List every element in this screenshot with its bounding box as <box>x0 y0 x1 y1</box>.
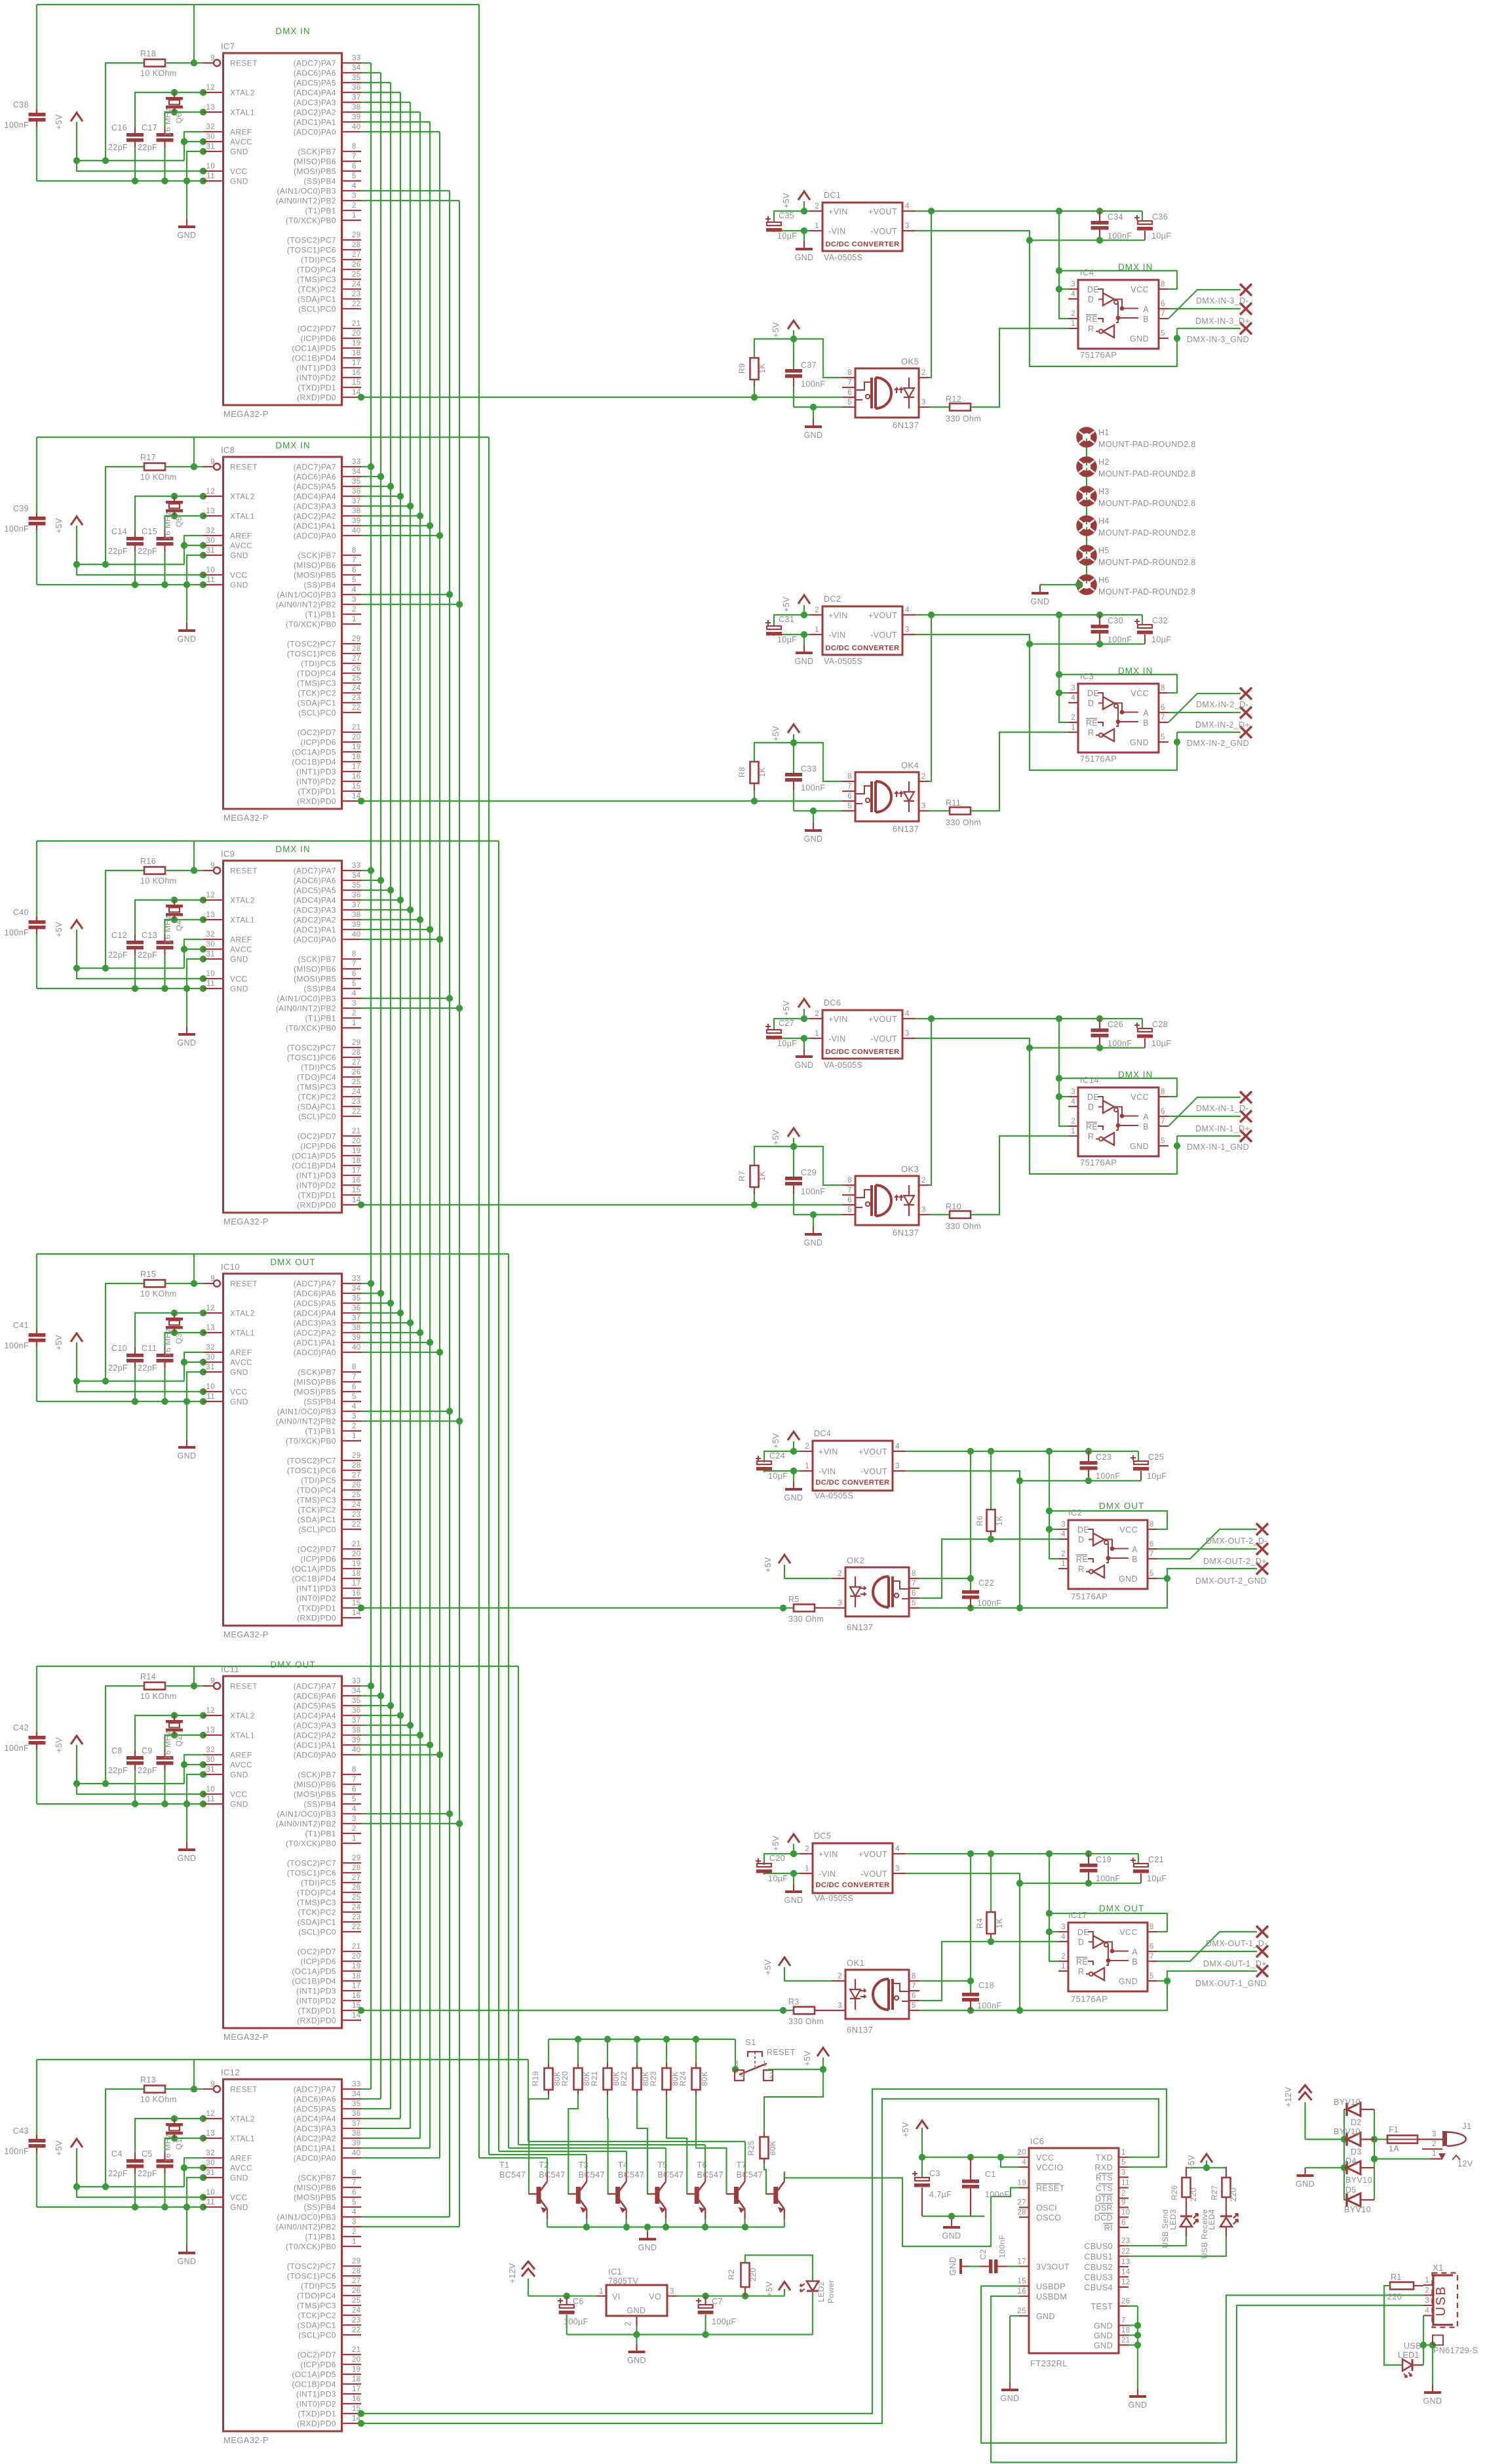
svg-text:(OC1B)PD4: (OC1B)PD4 <box>292 1574 336 1584</box>
svg-text:D: D <box>1088 295 1094 304</box>
svg-text:(SCK)PB7: (SCK)PB7 <box>298 1770 336 1780</box>
svg-text:R19: R19 <box>531 2071 540 2086</box>
svg-text:CBUS3: CBUS3 <box>1084 2273 1113 2282</box>
svg-text:2: 2 <box>815 203 819 210</box>
svg-text:BYV10: BYV10 <box>1334 2098 1361 2107</box>
svg-text:IC3: IC3 <box>1080 671 1094 681</box>
svg-text:PN61729-S: PN61729-S <box>1433 2346 1478 2355</box>
svg-text:11: 11 <box>206 1795 215 1803</box>
svg-text:10: 10 <box>1121 2209 1130 2217</box>
svg-text:19: 19 <box>352 2366 361 2374</box>
svg-text:7: 7 <box>1149 1953 1154 1961</box>
svg-text:4: 4 <box>1022 2159 1026 2166</box>
svg-text:GND: GND <box>1130 738 1149 747</box>
svg-text:15: 15 <box>352 783 361 791</box>
svg-text:DMX-IN-2_D+: DMX-IN-2_D+ <box>1195 720 1250 730</box>
svg-text:10 KOhm: 10 KOhm <box>140 473 177 482</box>
svg-text:(ADC2)PA2: (ADC2)PA2 <box>294 512 336 521</box>
svg-text:(OC2)PD7: (OC2)PD7 <box>298 2351 336 2360</box>
svg-text:1: 1 <box>599 2288 604 2296</box>
svg-text:D3: D3 <box>1351 2147 1362 2157</box>
svg-text:7: 7 <box>352 557 357 564</box>
svg-text:(ADC3)PA3: (ADC3)PA3 <box>294 2124 336 2134</box>
svg-text:33: 33 <box>352 1677 361 1685</box>
svg-text:(TOSC1)PC6: (TOSC1)PC6 <box>287 1053 336 1063</box>
svg-text:8: 8 <box>352 950 357 958</box>
svg-text:(SCL)PC0: (SCL)PC0 <box>298 1112 336 1122</box>
svg-text:16: 16 <box>1017 2288 1026 2296</box>
svg-text:(TOSC1)PC6: (TOSC1)PC6 <box>287 2272 336 2281</box>
svg-text:16: 16 <box>352 773 361 781</box>
svg-text:13: 13 <box>206 911 215 919</box>
svg-text:C2: C2 <box>978 2249 988 2259</box>
svg-text:XTAL1: XTAL1 <box>230 512 255 521</box>
svg-text:1: 1 <box>815 626 819 634</box>
svg-text:H5: H5 <box>1098 546 1110 555</box>
svg-text:16 MHz: 16 MHz <box>163 915 172 944</box>
svg-text:13: 13 <box>1121 2258 1130 2266</box>
svg-text:R14: R14 <box>140 1672 156 1681</box>
svg-text:(INT0)PD2: (INT0)PD2 <box>296 777 336 787</box>
svg-text:13: 13 <box>206 1727 215 1734</box>
svg-text:100nF: 100nF <box>5 1744 29 1753</box>
svg-text:4: 4 <box>895 1845 900 1853</box>
svg-text:32: 32 <box>206 2149 215 2157</box>
svg-text:C22: C22 <box>978 1578 994 1588</box>
svg-text:(OC2)PD7: (OC2)PD7 <box>298 324 336 334</box>
svg-text:10µF: 10µF <box>768 1874 788 1883</box>
svg-text:37: 37 <box>352 901 361 909</box>
svg-text:LED1: LED1 <box>1398 2351 1419 2360</box>
svg-text:13: 13 <box>206 104 215 111</box>
svg-text:8: 8 <box>847 773 852 781</box>
svg-text:OK1: OK1 <box>847 1958 864 1968</box>
svg-text:18: 18 <box>352 1570 361 1578</box>
svg-text:AREF: AREF <box>230 935 252 945</box>
svg-text:2: 2 <box>1071 310 1075 318</box>
svg-text:30: 30 <box>206 1354 215 1361</box>
svg-text:GND: GND <box>1129 2400 1148 2410</box>
svg-text:(TCK)PC2: (TCK)PC2 <box>298 1506 336 1515</box>
svg-text:(ADC5)PA5: (ADC5)PA5 <box>294 79 336 88</box>
svg-text:21: 21 <box>352 1540 361 1548</box>
svg-text:10: 10 <box>206 970 215 978</box>
svg-text:(ADC1)PA1: (ADC1)PA1 <box>294 522 336 531</box>
svg-text:100µF: 100µF <box>564 2317 589 2326</box>
svg-text:(TOSC2)PC7: (TOSC2)PC7 <box>287 1044 336 1053</box>
svg-text:(AIN0/INT2)PB2: (AIN0/INT2)PB2 <box>276 1417 336 1426</box>
svg-text:BC547: BC547 <box>499 2170 526 2180</box>
svg-text:16: 16 <box>352 2395 361 2403</box>
svg-text:17: 17 <box>352 2385 361 2393</box>
svg-text:35: 35 <box>352 478 361 486</box>
svg-text:C27: C27 <box>779 1019 794 1028</box>
svg-text:33: 33 <box>352 1275 361 1283</box>
svg-text:100nF: 100nF <box>1108 635 1132 644</box>
svg-text:(AIN1/OC0)PB3: (AIN1/OC0)PB3 <box>277 591 336 600</box>
svg-text:MEGA32-P: MEGA32-P <box>223 2435 269 2445</box>
svg-text:+5V: +5V <box>782 193 791 208</box>
svg-text:4: 4 <box>1061 1531 1066 1538</box>
svg-text:+VIN: +VIN <box>828 207 848 216</box>
svg-text:(TXD)PD1: (TXD)PD1 <box>298 787 336 796</box>
svg-text:C42: C42 <box>13 1723 29 1732</box>
svg-text:RXD: RXD <box>1094 2163 1113 2172</box>
svg-text:RESET: RESET <box>1036 2184 1065 2193</box>
svg-text:3: 3 <box>921 1206 926 1214</box>
svg-text:GND: GND <box>1001 2394 1020 2403</box>
svg-text:22: 22 <box>352 300 361 308</box>
svg-text:C18: C18 <box>978 1981 994 1990</box>
svg-text:29: 29 <box>352 2258 361 2265</box>
svg-text:Q6: Q6 <box>174 113 183 124</box>
svg-text:(TDI)PC5: (TDI)PC5 <box>301 256 336 265</box>
svg-text:(ADC5)PA5: (ADC5)PA5 <box>294 482 336 492</box>
svg-text:5: 5 <box>847 1206 852 1214</box>
svg-text:+5V: +5V <box>771 322 781 338</box>
svg-text:100nF: 100nF <box>977 2001 1001 2010</box>
svg-text:GND: GND <box>230 1368 248 1377</box>
svg-text:2: 2 <box>1425 2287 1429 2295</box>
svg-text:OK3: OK3 <box>901 1164 919 1174</box>
svg-text:6: 6 <box>352 1383 357 1391</box>
svg-text:(ICP)PD6: (ICP)PD6 <box>300 1555 336 1564</box>
svg-text:GND: GND <box>178 1854 197 1863</box>
svg-text:R: R <box>1088 728 1094 737</box>
svg-text:BC547: BC547 <box>618 2170 644 2180</box>
svg-text:3: 3 <box>838 1599 842 1607</box>
svg-text:XTAL2: XTAL2 <box>230 2115 255 2124</box>
svg-text:330 Ohm: 330 Ohm <box>946 818 981 827</box>
svg-text:+5V: +5V <box>765 2281 774 2297</box>
svg-text:H1: H1 <box>1098 428 1110 437</box>
svg-text:(MISO)PB6: (MISO)PB6 <box>294 2183 336 2193</box>
svg-text:+12V: +12V <box>1284 2086 1293 2107</box>
svg-text:IC10: IC10 <box>221 1262 240 1272</box>
svg-text:(ADC4)PA4: (ADC4)PA4 <box>294 896 336 905</box>
svg-text:(ADC7)PA7: (ADC7)PA7 <box>294 463 336 472</box>
svg-text:GND: GND <box>804 834 823 844</box>
svg-text:3: 3 <box>895 1865 900 1873</box>
svg-text:30: 30 <box>206 537 215 545</box>
svg-text:2: 2 <box>352 202 357 210</box>
svg-text:22pF: 22pF <box>108 2169 128 2178</box>
svg-text:10: 10 <box>206 1383 215 1391</box>
svg-text:(T1)PB1: (T1)PB1 <box>305 206 336 216</box>
svg-text:12V: 12V <box>1458 2159 1473 2168</box>
svg-text:(SDA)PC1: (SDA)PC1 <box>298 295 336 304</box>
svg-text:2: 2 <box>921 1177 926 1184</box>
svg-text:(SS)PB4: (SS)PB4 <box>304 177 336 186</box>
svg-text:16 MHz: 16 MHz <box>163 511 172 540</box>
svg-text:100nF: 100nF <box>801 380 825 389</box>
svg-text:(TOSC2)PC7: (TOSC2)PC7 <box>287 1859 336 1868</box>
svg-text:(ADC7)PA7: (ADC7)PA7 <box>294 1682 336 1691</box>
svg-text:D5: D5 <box>1345 2185 1357 2195</box>
svg-text:(T1)PB1: (T1)PB1 <box>305 610 336 619</box>
svg-text:12: 12 <box>206 2110 215 2118</box>
svg-text:24: 24 <box>352 1501 361 1509</box>
svg-text:(AIN0/INT2)PB2: (AIN0/INT2)PB2 <box>276 1820 336 1829</box>
svg-text:75176AP: 75176AP <box>1080 1158 1117 1167</box>
svg-text:VI: VI <box>612 2292 621 2301</box>
svg-text:34: 34 <box>352 1285 361 1293</box>
svg-text:USBDM: USBDM <box>1036 2292 1067 2301</box>
svg-text:31: 31 <box>206 547 215 555</box>
svg-text:23: 23 <box>352 694 361 702</box>
svg-text:+5V: +5V <box>54 518 64 534</box>
svg-text:23: 23 <box>352 1098 361 1106</box>
svg-text:C5: C5 <box>142 2149 153 2159</box>
svg-text:5: 5 <box>352 980 357 988</box>
svg-text:2: 2 <box>838 1972 842 1980</box>
svg-text:DMX OUT: DMX OUT <box>1099 1501 1144 1511</box>
svg-text:8: 8 <box>1161 1088 1165 1096</box>
svg-text:A: A <box>1143 1112 1149 1122</box>
svg-text:+5V: +5V <box>771 1433 781 1449</box>
svg-text:13: 13 <box>206 507 215 515</box>
svg-text:CBUS0: CBUS0 <box>1084 2242 1113 2251</box>
svg-text:C37: C37 <box>801 361 817 370</box>
svg-text:C3: C3 <box>929 2169 940 2178</box>
svg-text:RE: RE <box>1086 718 1098 728</box>
svg-text:(INT0)PD2: (INT0)PD2 <box>296 1594 336 1603</box>
svg-text:C10: C10 <box>111 1344 127 1353</box>
svg-text:(SCK)PB7: (SCK)PB7 <box>298 955 336 964</box>
svg-text:C21: C21 <box>1148 1855 1164 1864</box>
svg-text:BYV10: BYV10 <box>1345 2176 1372 2185</box>
svg-text:27: 27 <box>352 655 361 663</box>
svg-text:22: 22 <box>352 704 361 712</box>
svg-text:BYV10: BYV10 <box>1334 2127 1361 2136</box>
svg-text:7: 7 <box>1161 310 1165 318</box>
svg-text:17: 17 <box>352 1580 361 1588</box>
svg-text:4: 4 <box>905 1010 910 1018</box>
svg-text:8: 8 <box>847 369 852 377</box>
svg-text:C26: C26 <box>1108 1020 1123 1029</box>
svg-text:25: 25 <box>352 1078 361 1086</box>
svg-text:(ADC6)PA6: (ADC6)PA6 <box>294 1692 336 1701</box>
svg-text:22pF: 22pF <box>138 950 157 960</box>
svg-text:2: 2 <box>921 369 926 377</box>
svg-text:6N137: 6N137 <box>893 824 919 834</box>
svg-text:2: 2 <box>352 606 357 614</box>
svg-text:VCC: VCC <box>1119 1928 1138 1937</box>
svg-text:-VIN: -VIN <box>828 631 846 640</box>
svg-text:(T1)PB1: (T1)PB1 <box>305 1427 336 1436</box>
svg-text:RESET: RESET <box>767 2048 796 2057</box>
svg-text:6: 6 <box>1149 1540 1154 1548</box>
svg-text:D: D <box>1078 1535 1084 1544</box>
svg-text:40: 40 <box>352 1344 361 1352</box>
svg-text:15: 15 <box>1017 2278 1026 2286</box>
svg-text:DMX IN: DMX IN <box>1118 666 1153 676</box>
svg-text:(AIN1/OC0)PB3: (AIN1/OC0)PB3 <box>277 1407 336 1417</box>
svg-text:C8: C8 <box>111 1746 123 1755</box>
svg-text:38: 38 <box>352 104 361 111</box>
svg-text:7: 7 <box>1149 1550 1154 1558</box>
svg-text:12: 12 <box>1121 2278 1130 2286</box>
svg-text:16: 16 <box>352 1992 361 2000</box>
svg-text:3: 3 <box>1061 1923 1066 1931</box>
svg-text:C38: C38 <box>13 100 29 109</box>
svg-text:(TCK)PC2: (TCK)PC2 <box>298 1093 336 1102</box>
svg-text:(MISO)PB6: (MISO)PB6 <box>294 561 336 570</box>
svg-text:CTS: CTS <box>1096 2184 1113 2193</box>
svg-text:(SDA)PC1: (SDA)PC1 <box>298 2321 336 2330</box>
svg-text:LED4: LED4 <box>1207 2209 1216 2230</box>
svg-text:R7: R7 <box>737 1171 746 1181</box>
svg-text:(MISO)PB6: (MISO)PB6 <box>294 965 336 974</box>
svg-text:(SS)PB4: (SS)PB4 <box>304 1398 336 1407</box>
svg-text:Power: Power <box>826 2280 836 2303</box>
svg-text:VA-0505S: VA-0505S <box>815 1894 853 1903</box>
svg-text:7: 7 <box>847 379 852 387</box>
svg-text:16 MHz: 16 MHz <box>163 1328 172 1357</box>
svg-text:(ADC1)PA1: (ADC1)PA1 <box>294 118 336 127</box>
svg-text:10 KOhm: 10 KOhm <box>140 1692 177 1701</box>
svg-text:8: 8 <box>1161 684 1165 692</box>
svg-text:DMX OUT: DMX OUT <box>270 1257 315 1267</box>
svg-text:C11: C11 <box>142 1344 157 1353</box>
svg-text:(ADC1)PA1: (ADC1)PA1 <box>294 926 336 935</box>
svg-text:13: 13 <box>206 1324 215 1332</box>
svg-text:4: 4 <box>352 182 357 190</box>
svg-text:MOUNT-PAD-ROUND2.8: MOUNT-PAD-ROUND2.8 <box>1098 528 1196 538</box>
svg-text:5: 5 <box>352 576 357 584</box>
svg-text:39: 39 <box>352 1334 361 1342</box>
svg-text:100nF: 100nF <box>985 2190 1009 2199</box>
svg-text:5: 5 <box>1161 1137 1165 1145</box>
svg-text:R17: R17 <box>140 453 156 462</box>
svg-text:6: 6 <box>352 1786 357 1793</box>
svg-text:100nF: 100nF <box>1108 1039 1132 1048</box>
svg-text:29: 29 <box>352 231 361 239</box>
svg-text:39: 39 <box>352 113 361 121</box>
svg-text:IC2: IC2 <box>1068 1508 1082 1517</box>
svg-text:(TMS)PC3: (TMS)PC3 <box>297 2301 336 2311</box>
svg-text:R21: R21 <box>590 2071 599 2086</box>
svg-text:330 Ohm: 330 Ohm <box>788 2017 824 2026</box>
svg-text:(TCK)PC2: (TCK)PC2 <box>298 285 336 294</box>
svg-text:(INT0)PD2: (INT0)PD2 <box>296 1997 336 2006</box>
svg-text:CBUS4: CBUS4 <box>1084 2283 1113 2292</box>
svg-text:16: 16 <box>352 1177 361 1184</box>
svg-text:20: 20 <box>352 330 361 338</box>
svg-text:5: 5 <box>912 1599 916 1607</box>
svg-text:C29: C29 <box>801 1168 817 1177</box>
svg-text:3V3OUT: 3V3OUT <box>1036 2263 1070 2272</box>
svg-text:TXD: TXD <box>1096 2153 1113 2162</box>
svg-text:IC17: IC17 <box>1068 1910 1087 1920</box>
svg-text:(MOSI)PB5: (MOSI)PB5 <box>294 571 336 580</box>
svg-text:C6: C6 <box>573 2297 584 2306</box>
svg-text:+VIN: +VIN <box>819 1850 838 1859</box>
svg-text:24: 24 <box>352 281 361 288</box>
svg-text:35: 35 <box>352 882 361 890</box>
svg-text:(TDI)PC5: (TDI)PC5 <box>301 659 336 669</box>
svg-text:10 KOhm: 10 KOhm <box>140 876 177 886</box>
svg-text:FT232RL: FT232RL <box>1030 2358 1068 2368</box>
svg-text:DMX-IN-3_D-: DMX-IN-3_D- <box>1196 296 1248 305</box>
svg-text:(ADC3)PA3: (ADC3)PA3 <box>294 906 336 915</box>
svg-text:3: 3 <box>352 1815 357 1823</box>
svg-text:(ADC2)PA2: (ADC2)PA2 <box>294 2134 336 2143</box>
svg-text:C41: C41 <box>13 1321 29 1330</box>
svg-text:GND: GND <box>178 231 197 240</box>
svg-text:GND: GND <box>230 1800 248 1809</box>
svg-text:R: R <box>1078 1565 1084 1574</box>
svg-text:3: 3 <box>352 1413 357 1420</box>
svg-text:DMX-IN-1_D-: DMX-IN-1_D- <box>1196 1104 1248 1113</box>
svg-text:10µF: 10µF <box>1147 1874 1167 1883</box>
svg-text:5: 5 <box>352 2199 357 2206</box>
svg-text:100nF: 100nF <box>1108 231 1132 241</box>
svg-text:(SCL)PC0: (SCL)PC0 <box>298 305 336 314</box>
svg-text:22pF: 22pF <box>138 143 157 152</box>
svg-text:XTAL1: XTAL1 <box>230 1731 255 1740</box>
svg-text:28: 28 <box>352 1864 361 1872</box>
svg-text:GND: GND <box>627 2306 646 2315</box>
svg-text:XTAL2: XTAL2 <box>230 1711 255 1721</box>
svg-text:16: 16 <box>352 369 361 377</box>
svg-text:R23: R23 <box>649 2071 658 2086</box>
svg-text:DMX-OUT-2_GND: DMX-OUT-2_GND <box>1195 1576 1267 1586</box>
svg-text:1: 1 <box>805 1865 809 1873</box>
svg-text:(ADC2)PA2: (ADC2)PA2 <box>294 1329 336 1338</box>
svg-text:AVCC: AVCC <box>230 1358 252 1367</box>
svg-text:(ADC5)PA5: (ADC5)PA5 <box>294 2105 336 2114</box>
svg-text:4: 4 <box>1071 694 1075 702</box>
svg-text:BYV10: BYV10 <box>1344 2205 1371 2214</box>
svg-text:18: 18 <box>1121 2327 1130 2335</box>
svg-text:33: 33 <box>352 458 361 466</box>
svg-text:20: 20 <box>352 1137 361 1145</box>
svg-text:8: 8 <box>352 1766 357 1774</box>
svg-text:30: 30 <box>206 133 215 141</box>
svg-text:DC/DC CONVERTER: DC/DC CONVERTER <box>826 241 900 248</box>
svg-text:+5V: +5V <box>771 1129 781 1145</box>
svg-text:3: 3 <box>1425 2297 1429 2305</box>
svg-text:75176AP: 75176AP <box>1071 1592 1108 1601</box>
svg-text:AVCC: AVCC <box>230 541 252 551</box>
svg-text:(AIN1/OC0)PB3: (AIN1/OC0)PB3 <box>277 1810 336 1819</box>
svg-text:R26: R26 <box>1170 2185 1179 2200</box>
svg-text:MEGA32-P: MEGA32-P <box>223 813 269 823</box>
svg-text:25: 25 <box>1017 2307 1026 2315</box>
svg-text:(RXD)PD0: (RXD)PD0 <box>297 2016 336 2025</box>
svg-text:(ADC7)PA7: (ADC7)PA7 <box>294 2085 336 2094</box>
svg-text:9: 9 <box>210 54 215 62</box>
svg-text:6: 6 <box>847 389 852 397</box>
svg-text:DMX-OUT-2_D-: DMX-OUT-2_D- <box>1206 1536 1267 1546</box>
svg-text:VA-0505S: VA-0505S <box>815 1491 853 1500</box>
svg-text:34: 34 <box>352 2090 361 2098</box>
svg-text:(TMS)PC3: (TMS)PC3 <box>297 1496 336 1505</box>
svg-text:VCC: VCC <box>1130 285 1149 294</box>
svg-text:10µF: 10µF <box>1151 231 1171 241</box>
svg-text:(AIN1/OC0)PB3: (AIN1/OC0)PB3 <box>277 187 336 196</box>
svg-text:(ADC0)PA0: (ADC0)PA0 <box>294 1751 336 1760</box>
svg-text:12: 12 <box>206 1707 215 1715</box>
svg-text:VCC: VCC <box>230 167 248 176</box>
svg-text:MOUNT-PAD-ROUND2.8: MOUNT-PAD-ROUND2.8 <box>1098 469 1196 479</box>
svg-text:5: 5 <box>352 172 357 180</box>
svg-text:DMX IN: DMX IN <box>1118 262 1153 272</box>
svg-text:12: 12 <box>206 891 215 899</box>
svg-text:GND: GND <box>804 1238 823 1247</box>
svg-text:C25: C25 <box>1148 1453 1164 1462</box>
